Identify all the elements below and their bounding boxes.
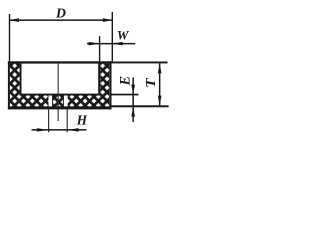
E arrow down (outside above) (131, 85, 135, 94)
svg-text:W: W (117, 27, 130, 42)
bushing block in bore (53, 95, 64, 107)
wheel left edge (8, 61, 10, 109)
T dimension line (159, 64, 161, 106)
H extension line left (48, 109, 49, 132)
hatch bottom band left of bore (20, 95, 49, 107)
D / W extension line right (112, 12, 113, 61)
W arrow outside-right (111, 42, 122, 46)
bore centerline (58, 64, 59, 121)
D dimension line (9, 19, 113, 21)
H extension line right (67, 109, 68, 132)
H arrow outside-left (37, 128, 48, 132)
wheel bottom line (8, 106, 112, 109)
right wall inner edge (98, 62, 100, 95)
D arrow right (103, 18, 113, 22)
H dimension line (32, 129, 87, 131)
cavity floor line (20, 94, 101, 96)
H arrow outside-right (67, 128, 78, 132)
hatch left wall (10, 62, 20, 107)
bottom extension line to T (112, 105, 169, 107)
W arrow outside-left (89, 42, 100, 46)
D extension line left (9, 14, 10, 61)
E dimension line (132, 77, 134, 122)
hatch right wall (100, 62, 109, 107)
wheel top face line (8, 61, 112, 63)
svg-text:T: T (143, 77, 158, 87)
svg-text:E: E (118, 76, 134, 86)
T arrow down (158, 96, 162, 106)
left wall inner edge (20, 62, 22, 95)
floor extension line to E (112, 94, 139, 96)
E arrow up (outside below) (131, 107, 135, 117)
D arrow left (9, 18, 19, 22)
T arrow up (158, 64, 162, 74)
svg-text:D: D (55, 7, 66, 22)
svg-text:H: H (76, 113, 88, 128)
W dimension line (87, 43, 135, 45)
wheel right edge (109, 61, 111, 109)
top extension line to T (112, 62, 168, 64)
hatch bottom band right of bore (68, 95, 100, 107)
W extension line left (99, 36, 100, 61)
